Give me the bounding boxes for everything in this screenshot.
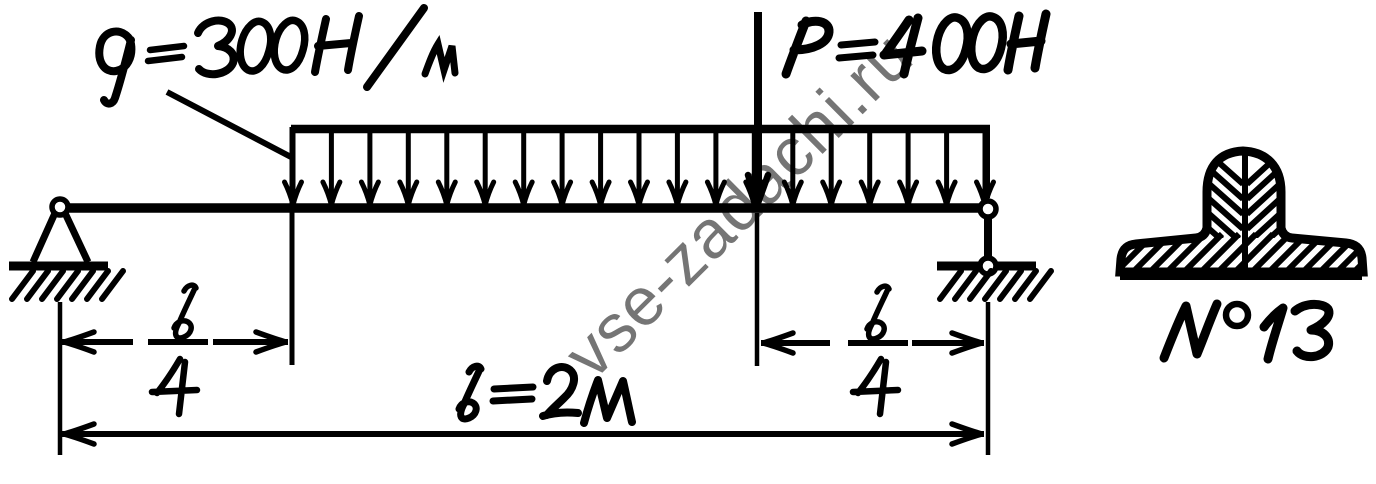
dimension l/4 left line <box>62 339 133 345</box>
T-profile midrib <box>1242 150 1248 270</box>
dim arrow left at x=62 <box>64 424 94 444</box>
numeral 4 left <box>152 359 197 414</box>
script ell in l=2m <box>459 366 481 419</box>
T-profile flange hatching <box>1108 234 1376 280</box>
script ell left <box>174 285 196 338</box>
support B top circle <box>980 201 996 217</box>
fraction bar l/4 right <box>848 340 908 346</box>
force P arrowhead <box>748 175 768 203</box>
watermark vse-zadachi.ru <box>550 17 927 392</box>
fraction bar l/4 left <box>148 339 208 345</box>
distributed load q top line <box>291 125 990 134</box>
dim arrow right at x=984 <box>952 424 982 444</box>
support B link <box>984 216 992 260</box>
P extension below beam <box>755 213 760 366</box>
T-profile bottom line <box>1120 268 1362 280</box>
dim arrow right at x=288 <box>256 332 286 352</box>
dim arrow right at x=984 <box>952 333 982 353</box>
script ell right <box>867 286 889 339</box>
support A triangle <box>33 213 88 262</box>
dim arrow left at x=761 <box>763 333 793 353</box>
T-profile outline <box>1120 151 1363 272</box>
support A ground hatching <box>12 271 123 299</box>
extension line left <box>58 302 63 455</box>
label No13 <box>1164 304 1329 359</box>
numeral 4 right <box>853 359 898 414</box>
support B ground line <box>937 262 1036 271</box>
support A ground line <box>9 262 108 271</box>
label =2m <box>493 387 533 401</box>
leader line q <box>167 92 291 157</box>
load right edge <box>984 127 990 198</box>
label q=300 N/m <box>99 8 455 104</box>
label P=400 N <box>786 14 1046 74</box>
load left edge extension <box>290 127 295 365</box>
support B bottom circle <box>980 258 996 274</box>
distributed load arrows <box>285 133 994 205</box>
dimension l=2m line <box>62 431 984 437</box>
T-profile stem feather hatching <box>1207 152 1282 289</box>
dimension l/4 right line <box>761 340 830 346</box>
support A pin circle <box>52 199 68 215</box>
extension line right <box>986 302 991 455</box>
force P line <box>754 12 762 190</box>
beam <box>56 203 986 213</box>
dim arrow left at x=62 <box>64 332 94 352</box>
support B ground hatching <box>940 271 1051 299</box>
